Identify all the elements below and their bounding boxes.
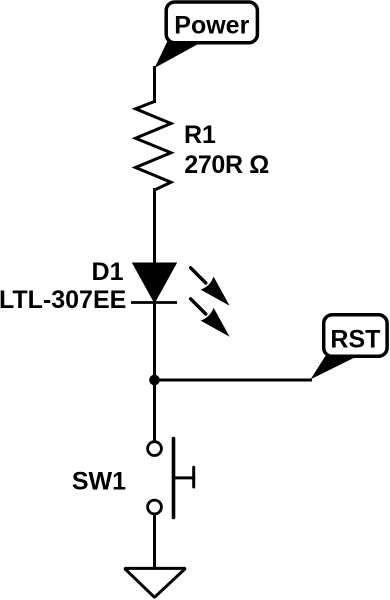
svg-text:D1: D1	[92, 258, 124, 286]
svg-text:SW1: SW1	[72, 468, 126, 496]
svg-text:LTL-307EE: LTL-307EE	[0, 286, 126, 314]
svg-text:Power: Power	[174, 11, 249, 39]
svg-text:RST: RST	[330, 326, 380, 354]
svg-text:270R Ω: 270R Ω	[184, 151, 269, 179]
svg-text:R1: R1	[184, 121, 216, 149]
